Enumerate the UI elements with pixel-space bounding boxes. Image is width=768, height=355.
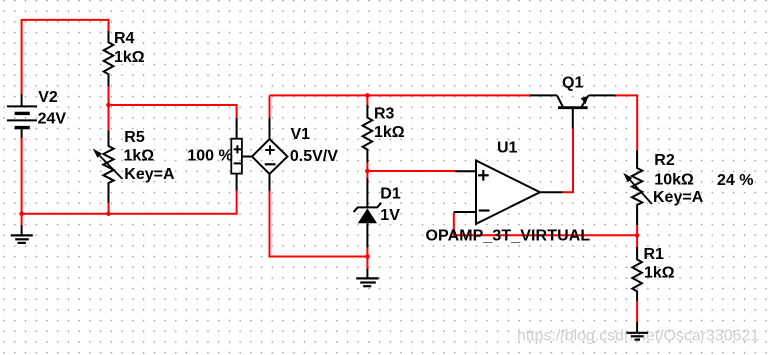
wire Q1 emitter to R2 top xyxy=(615,95,637,150)
ground under D1 xyxy=(366,269,368,279)
wire mid node to op-amp plus xyxy=(367,170,455,172)
ground under R1 xyxy=(636,322,638,333)
zener diode D1 xyxy=(366,178,368,208)
svg-text:100 %: 100 % xyxy=(187,147,232,164)
wire feedback from minus input xyxy=(454,213,637,236)
vcvs box leads xyxy=(236,118,238,139)
wire junction to box top xyxy=(109,105,237,119)
potentiometer R5 arrow xyxy=(100,156,123,179)
svg-text:Key=A: Key=A xyxy=(653,189,704,206)
op-amp U1 xyxy=(476,161,540,224)
wire D1 bottom to ground node xyxy=(366,247,368,269)
battery V2 leads xyxy=(21,94,23,105)
svg-text:D1: D1 xyxy=(380,185,401,202)
svg-text:Key=A: Key=A xyxy=(124,166,175,183)
svg-text:Q1: Q1 xyxy=(562,74,583,91)
node R3/D1/op-amp plus junction xyxy=(365,169,370,174)
potentiometer R2 xyxy=(632,150,642,225)
svg-text:1kΩ: 1kΩ xyxy=(644,265,675,282)
wire R4 bottom to junction xyxy=(108,86,110,105)
svg-text:1kΩ: 1kΩ xyxy=(114,49,145,66)
wire junction to R1 top xyxy=(636,235,638,247)
svg-text:R1: R1 xyxy=(644,246,665,263)
transistor Q1 xyxy=(530,94,557,96)
wire bottom rail to box bottom xyxy=(22,190,237,214)
wire R3 top stub xyxy=(366,95,368,105)
svg-text:1kΩ: 1kΩ xyxy=(374,124,405,141)
vcvs V1 diamond xyxy=(252,139,288,174)
svg-text:OPAMP_3T_VIRTUAL: OPAMP_3T_VIRTUAL xyxy=(426,228,591,245)
wire D1 top stub xyxy=(366,171,368,179)
wire mid rail xyxy=(270,94,532,96)
vcvs connector box-diamond xyxy=(242,156,252,158)
node R4/R5/box junction xyxy=(106,103,111,108)
wire R3 bottom stub xyxy=(366,162,368,171)
svg-text:U1: U1 xyxy=(497,140,518,157)
svg-text:0.5V/V: 0.5V/V xyxy=(290,148,338,165)
vcvs diamond leads xyxy=(269,118,271,139)
wire R5 bottom to rail xyxy=(108,203,110,214)
svg-text:10kΩ: 10kΩ xyxy=(654,171,694,188)
ground left xyxy=(21,225,23,235)
potentiometer R2 arrow xyxy=(630,180,652,204)
svg-text:1kΩ: 1kΩ xyxy=(124,147,155,164)
potentiometer R5 xyxy=(103,131,113,204)
vcvs input box xyxy=(231,139,242,174)
wire top-left rail xyxy=(22,20,109,95)
node rail/R3 top junction xyxy=(365,93,370,98)
battery V2 plates xyxy=(7,105,37,107)
wire R1 bottom to ground xyxy=(636,301,638,323)
wire battery bottom to rail xyxy=(21,138,23,214)
wire R2 bottom to junction xyxy=(636,225,638,235)
node feedback/R2/R1 junction xyxy=(635,233,640,238)
wire junction to R5 top xyxy=(108,105,110,131)
svg-text:24V: 24V xyxy=(38,111,67,128)
resistor R3 xyxy=(363,105,373,162)
svg-text:1V: 1V xyxy=(380,207,400,224)
wire diamond top to mid rail xyxy=(269,95,271,118)
svg-text:R3: R3 xyxy=(374,106,395,123)
svg-text:R2: R2 xyxy=(654,152,675,169)
svg-text:24 %: 24 % xyxy=(717,172,753,189)
svg-text:V2: V2 xyxy=(38,89,58,106)
node R5 bottom rail junction xyxy=(106,211,111,216)
svg-text:V1: V1 xyxy=(291,126,311,143)
svg-text:R4: R4 xyxy=(114,30,135,47)
wire op-amp output to Q1 base xyxy=(562,128,573,192)
resistor R1 xyxy=(632,247,642,301)
wire diamond bottom down and right xyxy=(270,191,368,257)
resistor R4 xyxy=(104,31,114,87)
node battery/ground/rail junction xyxy=(19,211,24,216)
svg-text:R5: R5 xyxy=(124,129,145,146)
node D1/ground junction xyxy=(365,254,370,259)
wire left ground stub xyxy=(21,214,23,226)
